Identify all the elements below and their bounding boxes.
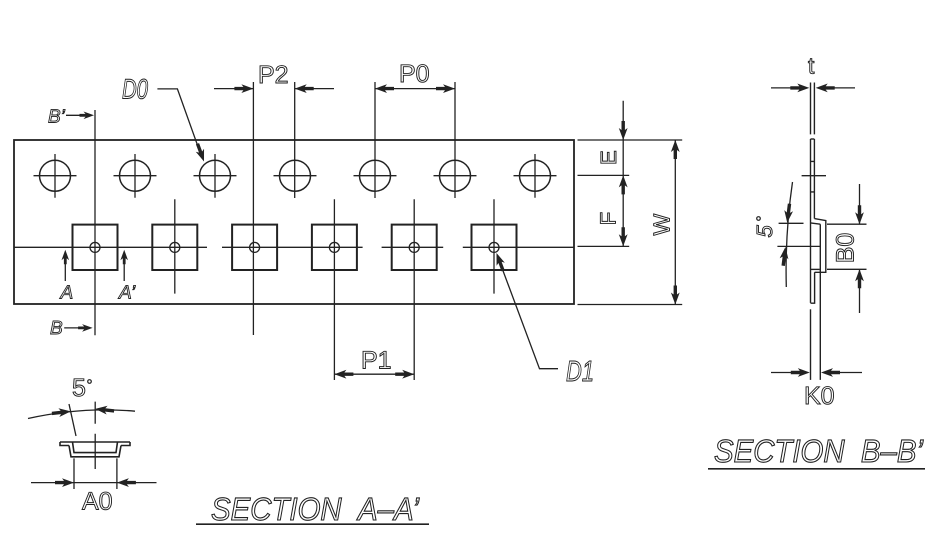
svg-text:SECTION A–A’: SECTION A–A’ — [211, 491, 420, 527]
svg-text:t: t — [808, 53, 815, 79]
svg-text:D0: D0 — [122, 74, 148, 105]
svg-text:SECTION B–B’: SECTION B–B’ — [714, 433, 924, 469]
svg-text:E: E — [596, 150, 621, 165]
svg-text:5: 5 — [72, 374, 86, 402]
svg-text:5: 5 — [752, 225, 777, 238]
svg-text:K0: K0 — [804, 382, 835, 410]
svg-text:P1: P1 — [361, 347, 392, 375]
svg-text:W: W — [649, 214, 675, 236]
svg-text:A: A — [60, 283, 74, 304]
svg-text:A’: A’ — [118, 283, 136, 304]
svg-text:B’: B’ — [48, 107, 66, 128]
svg-text:A0: A0 — [82, 488, 113, 516]
svg-text:P0: P0 — [399, 60, 430, 88]
svg-text:B: B — [50, 318, 63, 339]
svg-text:D1: D1 — [566, 356, 594, 388]
svg-text:B0: B0 — [832, 233, 860, 264]
svg-text:P2: P2 — [258, 61, 289, 89]
svg-text:F: F — [596, 212, 621, 225]
